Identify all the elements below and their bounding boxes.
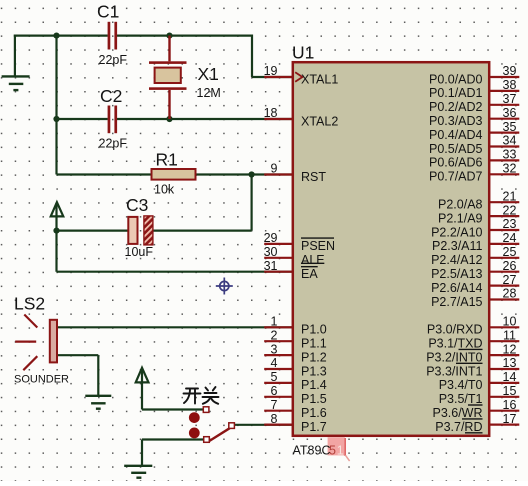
- ground (top-left, XTAL1 rail): [2, 76, 30, 90]
- svg-text:36: 36: [503, 106, 517, 120]
- svg-text:22: 22: [503, 203, 517, 217]
- pin 8 (P1.7) stub and number: [264, 412, 293, 426]
- svg-text:6: 6: [271, 384, 278, 398]
- svg-text:19: 19: [264, 64, 278, 78]
- pin name P1.4: [301, 378, 327, 392]
- svg-text:U1: U1: [292, 43, 314, 63]
- pin 29 (PSEN) stub and number: [264, 231, 293, 245]
- wire: XTAL2 rail from trunk to C2 left plate: [57, 118, 108, 120]
- pin 22 (P2.1/A9) stub and number: [489, 203, 519, 217]
- pin 3 (P1.2) stub and number: [264, 342, 293, 356]
- svg-text:27: 27: [503, 273, 517, 287]
- svg-text:ALE: ALE: [301, 253, 325, 267]
- pin name P2.3/A11: [432, 239, 483, 253]
- pin name P2.1/A9: [438, 211, 483, 225]
- svg-text:21: 21: [503, 189, 517, 203]
- pin 1 (P1.0) stub and number: [264, 315, 293, 329]
- pin name RST: [301, 170, 326, 184]
- svg-text:P1.4: P1.4: [301, 378, 327, 392]
- pin name P1.0: [301, 323, 327, 337]
- svg-text:39: 39: [503, 64, 517, 78]
- svg-text:P1.6: P1.6: [301, 406, 327, 420]
- svg-text:34: 34: [503, 134, 517, 148]
- svg-text:SOUNDER: SOUNDER: [14, 374, 69, 386]
- wire: EA row from corner to chip pin 31: [57, 271, 294, 273]
- pin 5 (P1.4) stub and number: [264, 370, 293, 384]
- pin 30 (ALE) stub and number: [264, 245, 293, 259]
- svg-text:23: 23: [503, 217, 517, 231]
- svg-text:P2.1/A9: P2.1/A9: [438, 211, 483, 225]
- pin name P3.2/INT0: [426, 350, 482, 364]
- pin name P2.7/A15: [431, 295, 482, 309]
- svg-text:P2.4/A12: P2.4/A12: [431, 253, 482, 267]
- pin name P2.4/A12: [431, 253, 482, 267]
- svg-text:7: 7: [271, 398, 278, 412]
- pin 39 (P0.0/AD0) stub and number: [489, 64, 519, 78]
- svg-text:37: 37: [503, 92, 517, 106]
- wire: RST row from trunk corner to R1 left terminal: [57, 173, 153, 175]
- svg-text:25: 25: [503, 245, 517, 259]
- junction node: trunk / XTAL2 rail: [53, 116, 59, 122]
- svg-text:10k: 10k: [154, 183, 175, 197]
- pin 26 (P2.5/A13) stub and number: [489, 259, 519, 273]
- svg-text:32: 32: [503, 162, 517, 176]
- crystal X1 (12M): [149, 36, 221, 119]
- svg-text:2: 2: [271, 328, 278, 342]
- svg-text:P0.1/AD1: P0.1/AD1: [429, 86, 483, 100]
- svg-text:5: 5: [271, 370, 278, 384]
- svg-text:11: 11: [503, 328, 516, 342]
- svg-text:35: 35: [503, 120, 517, 134]
- wire: C3 row from power arrow node to C3 left plate: [57, 230, 129, 232]
- pin name P3.1/TXD: [428, 337, 482, 351]
- power +V arrow (switch pull-up): [136, 368, 149, 383]
- pin 6 (P1.5) stub and number: [264, 384, 293, 398]
- wire: switch lower terminal left and down to ground G3: [142, 440, 204, 466]
- pin name P0.0/AD0: [429, 72, 483, 86]
- pin name XTAL1: [301, 72, 338, 86]
- ground (sounder return, G2): [85, 396, 111, 409]
- pin name P1.5: [301, 392, 327, 406]
- svg-text:P3.1/TXD: P3.1/TXD: [428, 337, 482, 351]
- svg-text:P0.2/AD2: P0.2/AD2: [429, 100, 483, 114]
- junction node: RST / C3 branch: [249, 171, 255, 177]
- wire: C3 row from right plate to vertical drop: [153, 230, 252, 232]
- pin 11 (P3.1/TXD) stub and number: [489, 328, 519, 342]
- pin name P0.6/AD6: [429, 156, 483, 170]
- pin 14 (P3.4/T0) stub and number: [489, 370, 519, 384]
- svg-text:1: 1: [271, 315, 278, 329]
- pin name P0.1/AD1: [429, 86, 483, 100]
- pin name P3.7/RD: [435, 420, 482, 434]
- svg-text:10uF: 10uF: [125, 245, 154, 259]
- ground (switch return, G3): [124, 466, 152, 478]
- svg-text:P1.1: P1.1: [301, 337, 327, 351]
- pin name P3.6/WR: [432, 406, 482, 420]
- svg-text:C2: C2: [100, 86, 122, 106]
- IC U1 AT89C51 body: [293, 62, 489, 436]
- svg-text:P3.0/RXD: P3.0/RXD: [427, 323, 483, 337]
- capacitor C2 (22pF): [99, 86, 128, 151]
- svg-text:EA: EA: [301, 267, 318, 281]
- svg-text:38: 38: [503, 78, 517, 92]
- svg-text:3: 3: [271, 342, 278, 356]
- svg-text:P0.3/AD3: P0.3/AD3: [429, 114, 483, 128]
- svg-text:P2.5/A13: P2.5/A13: [431, 267, 482, 281]
- IC value label AT89C51 with pink highlight: [293, 437, 350, 461]
- pin name P2.2/A10: [431, 225, 482, 239]
- pin name P1.6: [301, 406, 327, 420]
- pin 10 (P3.0/RXD) stub and number: [489, 315, 519, 329]
- svg-text:XTAL1: XTAL1: [301, 72, 338, 86]
- svg-text:22pF: 22pF: [99, 53, 128, 67]
- svg-text:24: 24: [503, 231, 517, 245]
- pin name P0.5/AD5: [429, 142, 483, 156]
- svg-text:12M: 12M: [197, 86, 221, 100]
- wire: top rail C1 right plate to elbow, down to XTAL1 pin 19: [115, 35, 294, 78]
- svg-text:P2.6/A14: P2.6/A14: [431, 281, 482, 295]
- wire: sounder bottom terminal to ground G2: [57, 355, 98, 396]
- svg-text:AT89C: AT89C: [293, 444, 331, 458]
- pin 2 (P1.1) stub and number: [264, 328, 293, 342]
- capacitor C1 (22pF): [97, 2, 127, 68]
- pin 24 (P2.3/A11) stub and number: [489, 231, 519, 245]
- pin name P1.2: [301, 350, 327, 364]
- svg-text:XTAL2: XTAL2: [301, 114, 338, 128]
- pin 31 (EA) stub and number: [264, 259, 293, 273]
- pin name XTAL2: [301, 114, 338, 128]
- svg-text:P3.2/INT0: P3.2/INT0: [426, 350, 482, 364]
- svg-text:17: 17: [503, 412, 517, 426]
- svg-text:9: 9: [271, 162, 278, 176]
- svg-text:5: 5: [329, 444, 336, 458]
- pin name P2.0/A8: [438, 198, 483, 212]
- svg-text:P0.0/AD0: P0.0/AD0: [429, 72, 483, 86]
- svg-text:P3.3/INT1: P3.3/INT1: [426, 364, 482, 378]
- pin name EA: [301, 267, 318, 281]
- svg-text:14: 14: [503, 370, 517, 384]
- pin 32 (P0.7/AD7) stub and number: [489, 162, 519, 176]
- pin 12 (P3.2/INT0) stub and number: [489, 342, 519, 356]
- svg-text:1: 1: [337, 444, 344, 458]
- junction node: power arrow / C3 row: [53, 228, 59, 234]
- pin name P0.2/AD2: [429, 100, 483, 114]
- svg-text:P3.7/RD: P3.7/RD: [435, 420, 482, 434]
- pin 27 (P2.6/A14) stub and number: [489, 273, 519, 287]
- pin name P0.3/AD3: [429, 114, 483, 128]
- svg-text:P3.4/T0: P3.4/T0: [439, 378, 483, 392]
- wire: vertical trunk from top rail down to RST row: [55, 36, 57, 175]
- pin 38 (P0.1/AD1) stub and number: [489, 78, 519, 92]
- svg-text:4: 4: [271, 356, 278, 370]
- power +V arrow (reset network): [51, 202, 64, 216]
- svg-text:C3: C3: [126, 195, 148, 215]
- pin 34 (P0.5/AD5) stub and number: [489, 134, 519, 148]
- pin name P0.4/AD4: [429, 128, 483, 142]
- svg-text:22pF: 22pF: [99, 137, 128, 151]
- svg-text:13: 13: [503, 356, 517, 370]
- svg-text:X1: X1: [198, 64, 219, 84]
- pin 19 input chevron on XTAL1: [295, 72, 302, 82]
- svg-text:C1: C1: [97, 2, 119, 22]
- svg-text:15: 15: [503, 384, 517, 398]
- pin 16 (P3.6/WR) stub and number: [489, 398, 519, 412]
- pin 25 (P2.4/A12) stub and number: [489, 245, 519, 259]
- pin 17 (P3.7/RD) stub and number: [489, 412, 519, 426]
- wire: RST row from R1 right terminal to chip pin 9: [195, 173, 294, 175]
- pin name PSEN: [301, 238, 335, 253]
- svg-text:P1.5: P1.5: [301, 392, 327, 406]
- wire: XTAL2 rail from C2 right plate to chip pin 18: [115, 118, 294, 120]
- svg-text:26: 26: [503, 259, 517, 273]
- junction node: crystal bottom terminal on XTAL2 rail: [166, 116, 172, 122]
- wire: switch pole to chip pin 8 (P1.7): [234, 424, 294, 426]
- wire: vertical drop from RST junction down to C3 row: [251, 175, 253, 231]
- wire: power arrow vertical down to EA row corner: [55, 203, 57, 272]
- wire: power arrow 2 down and right to switch upper terminal: [142, 369, 203, 410]
- svg-text:P2.7/A15: P2.7/A15: [431, 295, 482, 309]
- sounder LS2: [14, 294, 69, 386]
- svg-text:P2.2/A10: P2.2/A10: [431, 225, 482, 239]
- svg-text:R1: R1: [156, 150, 178, 170]
- pin 36 (P0.3/AD3) stub and number: [489, 106, 519, 120]
- svg-text:P3.5/T1: P3.5/T1: [439, 392, 483, 406]
- wire: top rail from ground G1 to C1 left plate: [14, 35, 108, 77]
- pin 19 (XTAL1) stub and number: [264, 64, 293, 78]
- pin name P2.6/A14: [431, 281, 482, 295]
- pin name P3.3/INT1: [426, 364, 482, 378]
- pin 18 (XTAL2) stub and number: [264, 106, 293, 120]
- switch SW (开关): [189, 407, 235, 443]
- svg-text:LS2: LS2: [14, 294, 45, 314]
- resistor R1 (10k): [152, 150, 196, 197]
- svg-text:P0.7/AD7: P0.7/AD7: [429, 170, 483, 184]
- svg-text:P3.6/WR: P3.6/WR: [432, 406, 482, 420]
- svg-text:30: 30: [264, 245, 278, 259]
- pin 13 (P3.3/INT1) stub and number: [489, 356, 519, 370]
- pin 21 (P2.0/A8) stub and number: [489, 189, 519, 203]
- pin 23 (P2.2/A10) stub and number: [489, 217, 519, 231]
- svg-text:P1.7: P1.7: [301, 420, 327, 434]
- pin 4 (P1.3) stub and number: [264, 356, 293, 370]
- svg-text:29: 29: [264, 231, 278, 245]
- svg-text:P0.6/AD6: P0.6/AD6: [429, 156, 483, 170]
- pin name P2.5/A13: [431, 267, 482, 281]
- svg-text:18: 18: [264, 106, 278, 120]
- pin name P1.1: [301, 337, 327, 351]
- pin 15 (P3.5/T1) stub and number: [489, 384, 519, 398]
- pin 35 (P0.4/AD4) stub and number: [489, 120, 519, 134]
- label 开关 (switch) hand-drawn glyphs: [184, 387, 219, 404]
- junction node: crystal top terminal on XTAL1 rail: [166, 33, 172, 39]
- svg-text:16: 16: [503, 398, 517, 412]
- pin 37 (P0.2/AD2) stub and number: [489, 92, 519, 106]
- svg-text:RST: RST: [301, 170, 326, 184]
- pin name P3.5/T1: [439, 392, 483, 406]
- svg-text:P0.4/AD4: P0.4/AD4: [429, 128, 483, 142]
- pin name P3.4/T0: [439, 378, 483, 392]
- pin 33 (P0.6/AD6) stub and number: [489, 148, 519, 162]
- svg-text:P1.0: P1.0: [301, 323, 327, 337]
- origin marker (blue crosshair): [216, 278, 233, 295]
- svg-text:P2.3/A11: P2.3/A11: [432, 239, 483, 253]
- pin name P1.7: [301, 420, 327, 434]
- pin 7 (P1.6) stub and number: [264, 398, 293, 412]
- svg-text:12: 12: [503, 342, 517, 356]
- svg-text:33: 33: [503, 148, 517, 162]
- pin name P1.3: [301, 364, 327, 378]
- svg-text:P1.2: P1.2: [301, 350, 327, 364]
- pin 28 (P2.7/A15) stub and number: [489, 287, 519, 301]
- capacitor C3 (10uF electrolytic): [125, 195, 154, 259]
- svg-text:10: 10: [503, 315, 517, 329]
- svg-text:31: 31: [264, 259, 278, 273]
- svg-text:28: 28: [503, 287, 517, 301]
- svg-text:P2.0/A8: P2.0/A8: [438, 198, 483, 212]
- pin name P3.0/RXD: [427, 323, 483, 337]
- svg-text:8: 8: [271, 412, 278, 426]
- pin 9 (RST) stub and number: [264, 162, 293, 176]
- pin name ALE: [301, 253, 325, 267]
- svg-text:P0.5/AD5: P0.5/AD5: [429, 142, 483, 156]
- svg-text:PSEN: PSEN: [301, 239, 335, 253]
- wire: sounder top terminal to chip pin 1 (P1.0): [57, 326, 294, 328]
- pin name P0.7/AD7: [429, 170, 483, 184]
- junction node: trunk / top rail: [53, 33, 59, 39]
- svg-text:P1.3: P1.3: [301, 364, 327, 378]
